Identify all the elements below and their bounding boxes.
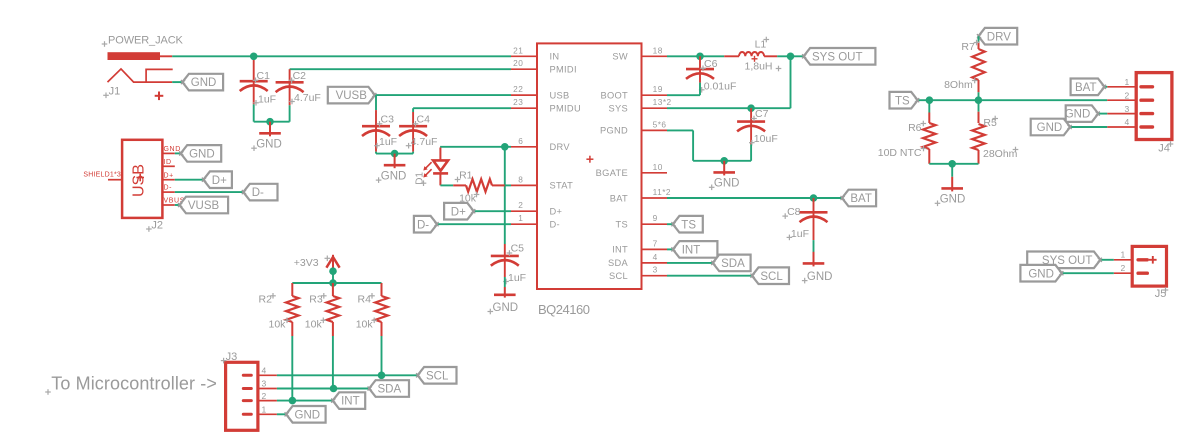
svg-text:D-: D-	[252, 187, 264, 199]
svg-text:R7: R7	[961, 41, 975, 53]
svg-text:STAT: STAT	[550, 181, 574, 191]
svg-text:GND: GND	[807, 271, 833, 283]
svg-text:GND: GND	[295, 409, 321, 421]
svg-text:BAT: BAT	[850, 193, 872, 205]
svg-text:11*2: 11*2	[653, 187, 671, 197]
svg-text:10uF: 10uF	[754, 133, 778, 145]
svg-text:J1: J1	[109, 86, 121, 98]
svg-text:8: 8	[518, 174, 523, 184]
svg-text:C7: C7	[755, 108, 769, 120]
svg-text:D+: D+	[451, 206, 466, 218]
svg-text:D+: D+	[550, 207, 563, 217]
svg-text:GND: GND	[493, 302, 519, 314]
svg-text:GND: GND	[1037, 122, 1063, 134]
svg-text:SYS OUT: SYS OUT	[812, 51, 862, 63]
svg-text:5*6: 5*6	[653, 119, 667, 129]
svg-text:4: 4	[653, 252, 658, 262]
svg-text:1: 1	[518, 213, 523, 223]
svg-text:BOOT: BOOT	[600, 91, 628, 101]
svg-text:10: 10	[653, 162, 663, 172]
svg-text:C4: C4	[417, 113, 431, 125]
svg-text:GND: GND	[191, 77, 217, 89]
svg-text:SDA: SDA	[721, 258, 745, 270]
svg-text:R2: R2	[259, 294, 273, 306]
svg-text:INT: INT	[612, 245, 628, 255]
svg-text:28Ohm: 28Ohm	[983, 148, 1018, 160]
svg-text:USB: USB	[131, 164, 148, 197]
svg-text:INT: INT	[341, 396, 360, 408]
svg-text:SCL: SCL	[760, 271, 783, 283]
svg-text:10k: 10k	[305, 319, 323, 331]
svg-text:PMIDU: PMIDU	[550, 104, 581, 114]
svg-text:2: 2	[518, 200, 523, 210]
svg-text:D-: D-	[417, 219, 429, 231]
svg-text:BAT: BAT	[1075, 82, 1097, 94]
svg-text:1uF: 1uF	[258, 93, 276, 105]
svg-text:9: 9	[653, 213, 658, 223]
svg-text:C2: C2	[293, 70, 307, 82]
svg-text:DRV: DRV	[550, 142, 571, 152]
svg-text:PGND: PGND	[600, 126, 628, 136]
svg-text:IN: IN	[550, 52, 560, 62]
svg-text:D-: D-	[550, 220, 560, 230]
svg-text:R3: R3	[309, 294, 323, 306]
svg-text:SDA: SDA	[608, 258, 629, 268]
svg-text:TS: TS	[895, 95, 910, 107]
svg-text:20: 20	[513, 58, 523, 68]
svg-text:SCL: SCL	[426, 370, 449, 382]
svg-text:13*2: 13*2	[653, 97, 672, 107]
svg-text:1: 1	[1125, 77, 1130, 87]
svg-text:19: 19	[653, 84, 663, 94]
svg-text:TS: TS	[616, 220, 628, 230]
svg-text:1: 1	[262, 405, 267, 415]
svg-text:SDA: SDA	[378, 384, 402, 396]
svg-text:USB: USB	[550, 90, 570, 100]
svg-text:4: 4	[1125, 117, 1130, 127]
svg-text:2: 2	[1125, 90, 1130, 100]
svg-text:3: 3	[1125, 104, 1130, 114]
svg-text:1uF: 1uF	[791, 228, 809, 240]
svg-text:3: 3	[262, 379, 267, 389]
svg-text:SCL: SCL	[609, 271, 628, 281]
svg-text:2: 2	[1121, 263, 1126, 273]
svg-text:BQ24160: BQ24160	[538, 302, 590, 317]
svg-text:ID: ID	[164, 159, 172, 166]
svg-text:GND: GND	[189, 149, 215, 161]
svg-text:D+: D+	[212, 175, 227, 187]
svg-text:SHIELD1*3: SHIELD1*3	[83, 171, 121, 178]
svg-text:23: 23	[513, 97, 523, 107]
svg-text:4: 4	[262, 366, 267, 376]
svg-text:R4: R4	[358, 294, 372, 306]
svg-text:BAT: BAT	[610, 193, 628, 203]
svg-text:SW: SW	[612, 52, 628, 62]
svg-text:10k: 10k	[356, 319, 374, 331]
svg-text:BGATE: BGATE	[596, 168, 628, 178]
svg-text:R1: R1	[459, 169, 473, 181]
svg-text:J2: J2	[151, 219, 163, 231]
svg-text:GND: GND	[1028, 268, 1054, 280]
svg-text:C3: C3	[381, 113, 395, 125]
svg-text:D-: D-	[164, 185, 173, 192]
svg-text:10D NTC: 10D NTC	[878, 147, 922, 159]
svg-text:21: 21	[513, 45, 523, 55]
svg-text:GND: GND	[1065, 109, 1091, 121]
svg-text:GND: GND	[164, 146, 181, 153]
svg-text:6: 6	[518, 136, 523, 146]
svg-text:C6: C6	[704, 58, 718, 70]
svg-text:10k: 10k	[269, 319, 287, 331]
svg-text:22: 22	[513, 84, 523, 94]
svg-text:POWER_JACK: POWER_JACK	[108, 35, 184, 47]
svg-text:TS: TS	[681, 219, 696, 231]
svg-text:VUSB: VUSB	[336, 90, 368, 102]
svg-text:C1: C1	[257, 70, 271, 82]
svg-text:J3: J3	[226, 351, 238, 363]
svg-text:2: 2	[262, 391, 267, 401]
svg-text:R6: R6	[908, 122, 922, 134]
svg-text:+3V3: +3V3	[294, 257, 319, 269]
svg-text:VUSB: VUSB	[188, 200, 220, 212]
svg-text:SYS: SYS	[608, 104, 628, 114]
svg-text:1uF: 1uF	[508, 272, 526, 284]
svg-text:18: 18	[653, 45, 663, 55]
svg-text:GND: GND	[381, 170, 407, 182]
svg-text:DRV: DRV	[987, 31, 1011, 43]
svg-text:To Microcontroller ->: To Microcontroller ->	[51, 373, 217, 393]
svg-text:4.7uF: 4.7uF	[411, 136, 438, 148]
svg-text:1uF: 1uF	[379, 136, 397, 148]
svg-text:1,8uH: 1,8uH	[745, 61, 773, 73]
svg-text:C5: C5	[511, 243, 525, 255]
svg-text:PMIDI: PMIDI	[550, 65, 577, 75]
svg-text:3: 3	[653, 265, 658, 275]
svg-text:1: 1	[1121, 250, 1126, 260]
svg-text:GND: GND	[714, 178, 740, 190]
svg-text:INT: INT	[682, 245, 701, 257]
svg-text:0.01uF: 0.01uF	[704, 80, 737, 92]
svg-text:GND: GND	[940, 194, 966, 206]
svg-text:C8: C8	[787, 206, 801, 218]
svg-text:D+: D+	[164, 172, 174, 179]
svg-text:8Ohm: 8Ohm	[944, 79, 973, 91]
svg-text:4.7uF: 4.7uF	[294, 92, 321, 104]
svg-text:GND: GND	[256, 139, 282, 151]
svg-text:7: 7	[653, 238, 658, 248]
